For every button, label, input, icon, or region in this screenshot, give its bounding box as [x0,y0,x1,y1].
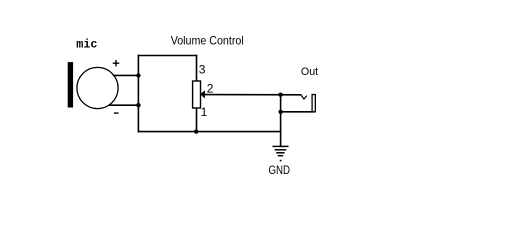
junction mic plus node [136,73,140,77]
wire jack sleeve [281,111,315,113]
ground symbol [273,146,289,161]
wire bottom rail [138,131,282,133]
svg-text:mic: mic [76,38,97,52]
wire left rail [137,55,139,133]
svg-text:3: 3 [199,62,206,76]
wire top rail [138,55,198,57]
wire pot pin3 to top rail [196,55,198,82]
svg-text:GND: GND [269,165,291,177]
junction mic minus node [136,103,140,107]
wire mic plus to node [113,74,140,76]
mic minus terminal label [114,112,119,114]
svg-text:Out: Out [301,66,318,78]
potentiometer R1 body [193,81,201,108]
wire out vertical to ground [280,95,282,147]
wire wiper to out [204,94,302,96]
junction pot pin1 node [194,129,198,133]
junction jack sleeve node [278,110,282,114]
svg-text:2: 2 [207,82,214,96]
microphone MIC [68,62,118,109]
jack tip contact [301,95,307,99]
potentiometer wiper arrow [201,91,205,98]
junction wiper out node [278,93,282,97]
wire mic minus to node [109,104,139,106]
mic plus terminal label [113,60,119,66]
svg-text:1: 1 [201,105,208,119]
svg-text:Volume Control: Volume Control [171,33,244,47]
wire pot pin1 to bottom rail [196,108,198,132]
jack J1 barrel [312,95,315,112]
